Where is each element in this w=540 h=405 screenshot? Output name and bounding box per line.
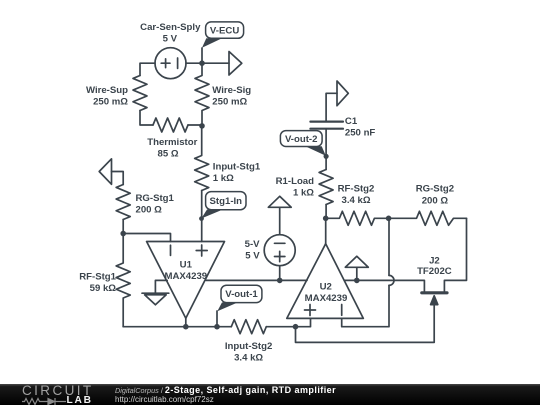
wire port to RG-Stg1 top <box>112 172 124 185</box>
wire 5-V source to rail <box>279 266 281 281</box>
wire U2 output to node RF-Stg2 <box>325 218 327 243</box>
junction dot node U2 out / RF-Stg2 <box>323 216 329 222</box>
resistor Input-Stg1 1 kOhm <box>195 126 209 191</box>
wire flag to 5-V source <box>279 207 281 234</box>
svg-text:1 kΩ: 1 kΩ <box>213 173 234 184</box>
power flag U2 V+ (up triangle) <box>345 256 368 267</box>
resistor Wire-Sig 250 mOhm <box>195 63 209 126</box>
junction dot 5-V rail <box>277 278 283 284</box>
wire node A to U1 minus input <box>123 234 170 242</box>
svg-text:5 V: 5 V <box>163 34 178 45</box>
svg-text:R1-Load: R1-Load <box>276 176 315 187</box>
junction dot V-out-1 tap <box>214 324 220 330</box>
wire R1-Load bottom to node <box>325 205 327 219</box>
svg-text:RF-Stg1: RF-Stg1 <box>79 272 116 283</box>
svg-text:5 V: 5 V <box>245 250 260 261</box>
wire V1 left lead to Wire-Sup top <box>140 63 155 75</box>
wire C1 bottom to R1-Load <box>325 129 327 170</box>
wire thermistor to node Stg1 <box>188 124 202 126</box>
wire V1 right lead to node V-ECU <box>186 62 202 64</box>
U1 V+ pin wire to 5-V node <box>206 279 307 281</box>
junction dot node V-ECU <box>199 60 205 66</box>
transistor J2 TF202C channel bar <box>422 291 447 294</box>
resistor RG-Stg1 200 Ohm <box>116 185 130 220</box>
junction dot feedback tap <box>293 324 299 330</box>
CircuitLab logo wordmark LAB <box>67 395 93 405</box>
wire feedback riser to node RF/RG <box>388 218 390 275</box>
wire Input-Stg1 to U1 plus input <box>201 191 203 242</box>
wire U1 output to bottom bus <box>185 318 187 326</box>
svg-text:V-ECU: V-ECU <box>210 25 239 36</box>
junction dot node A <box>120 231 126 237</box>
svg-text:Input-Stg1: Input-Stg1 <box>213 162 261 173</box>
svg-text:200 Ω: 200 Ω <box>136 205 163 216</box>
V1 plus marking <box>161 59 170 68</box>
junction dot V-out-2 anchor <box>324 154 329 159</box>
wire RG-Stg2 down to J2 source <box>444 218 466 291</box>
flag V-out-2 <box>280 131 325 156</box>
U2 minus input marking <box>341 305 343 316</box>
svg-text:V-out-2: V-out-2 <box>285 134 318 145</box>
resistor R1-Load 1 kOhm <box>319 170 333 205</box>
flag Stg1-In <box>199 192 246 221</box>
wire U2 minus input to feedback riser <box>342 285 389 326</box>
svg-text:RF-Stg2: RF-Stg2 <box>338 184 375 195</box>
junction dot node RF/RG <box>386 216 392 222</box>
U1 V- pin wire to ground <box>155 280 167 293</box>
svg-text:5-V: 5-V <box>245 239 261 250</box>
svg-text:MAX4239: MAX4239 <box>164 271 207 282</box>
wire feedback to J2 gate <box>296 303 435 342</box>
wire node stub up to V-ECU flag anchor <box>201 48 203 63</box>
junction dot U1 output <box>183 324 189 330</box>
svg-text:3.4 kΩ: 3.4 kΩ <box>341 195 370 206</box>
CircuitLab logo wordmark CIRCUIT <box>22 383 94 398</box>
svg-text:Stg1-In: Stg1-In <box>210 196 243 207</box>
resistor Wire-Sup 250 mOhm <box>133 76 147 111</box>
wire Wire-Sup bottom to thermistor <box>140 111 153 126</box>
wire Input-Stg2 to U2 plus input <box>266 318 310 326</box>
wire flag stub to rail <box>356 267 358 280</box>
svg-text:U2: U2 <box>320 282 332 293</box>
svg-text:TF202C: TF202C <box>417 266 452 277</box>
footer title line <box>115 385 336 395</box>
U1 minus input marking <box>170 245 172 255</box>
flag V-out-1 <box>217 285 262 311</box>
svg-text:J2: J2 <box>429 256 440 267</box>
ground symbol <box>142 293 169 305</box>
resistor RG-Stg2 200 Ohm <box>389 211 467 225</box>
resistor Input-Stg2 3.4 kOhm <box>231 320 266 334</box>
U2 V+ pin wire to J2 drain <box>344 280 424 291</box>
svg-text:250 nF: 250 nF <box>345 128 376 139</box>
svg-text:85 Ω: 85 Ω <box>157 148 178 159</box>
svg-text:C1: C1 <box>345 116 358 127</box>
wire hop over rail <box>389 275 394 285</box>
junction dot U2 V+ rail <box>354 278 360 284</box>
CircuitLab logo squiggle (resistor + diode) <box>22 397 68 405</box>
J2 gate arrowhead <box>431 296 438 305</box>
svg-text:Car-Sen-Sply: Car-Sen-Sply <box>140 22 201 33</box>
capacitor C1 250 nF <box>310 122 343 129</box>
svg-text:1 kΩ: 1 kΩ <box>293 188 314 199</box>
5-V plus marking <box>275 251 285 261</box>
svg-text:59 kΩ: 59 kΩ <box>90 283 117 294</box>
wire bottom bus <box>123 326 231 328</box>
resistor Thermistor 85 Ohm <box>153 118 188 132</box>
svg-text:250 mΩ: 250 mΩ <box>212 97 247 108</box>
svg-text:RG-Stg1: RG-Stg1 <box>136 193 175 204</box>
5-V minus marking <box>275 242 285 244</box>
U2 plus input marking <box>305 305 316 316</box>
wire RG-Stg1 bottom to node A <box>122 220 124 234</box>
wire V-out-1 anchor stub <box>216 311 218 327</box>
footer bar <box>0 384 540 405</box>
U1 plus input marking <box>196 245 207 256</box>
footer url line <box>115 395 214 404</box>
svg-text:250 mΩ: 250 mΩ <box>93 97 128 108</box>
junction dot node thermistor/Wire-Sig/Input-Stg1 <box>199 123 205 129</box>
power flag 5-V (up triangle) <box>268 196 291 207</box>
port arrow RG-Stg1 (left-pointing triangle) <box>99 159 111 185</box>
svg-text:RG-Stg2: RG-Stg2 <box>416 184 454 195</box>
svg-text:Wire-Sup: Wire-Sup <box>86 85 128 96</box>
flag V-ECU <box>202 22 244 48</box>
resistor RF-Stg1 59 kOhm <box>116 234 130 327</box>
svg-text:3.4 kΩ: 3.4 kΩ <box>234 353 263 364</box>
port arrow V-out-2 (right-pointing triangle) <box>337 81 348 106</box>
svg-text:Thermistor: Thermistor <box>147 137 197 148</box>
svg-text:Wire-Sig: Wire-Sig <box>212 85 251 96</box>
V1 minus marking <box>177 58 179 68</box>
voltage source 5-V <box>264 235 295 266</box>
op-amp U1 MAX4239 <box>147 242 225 319</box>
svg-text:Input-Stg2: Input-Stg2 <box>225 341 272 352</box>
svg-text:V-out-1: V-out-1 <box>225 289 258 300</box>
svg-text:U1: U1 <box>180 259 193 270</box>
svg-text:MAX4239: MAX4239 <box>305 293 348 304</box>
resistor RF-Stg2 3.4 kOhm <box>326 211 389 225</box>
port arrow V-ECU (right-pointing triangle) <box>229 52 242 76</box>
wire port to C1 top <box>326 93 337 121</box>
voltage source V1 Car-Sen-Sply <box>155 48 186 79</box>
svg-text:200 Ω: 200 Ω <box>422 196 449 207</box>
wire node to port <box>202 62 229 64</box>
op-amp U2 MAX4239 <box>287 244 364 319</box>
